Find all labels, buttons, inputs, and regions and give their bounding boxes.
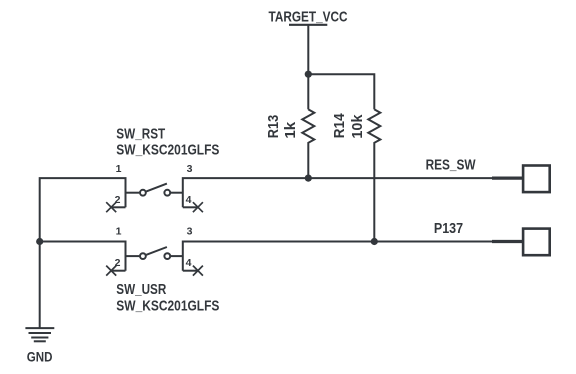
svg-text:SW_KSC201GLFS: SW_KSC201GLFS — [116, 143, 219, 159]
svg-text:2: 2 — [115, 257, 121, 269]
svg-text:2: 2 — [115, 194, 121, 206]
svg-text:GND: GND — [27, 349, 53, 364]
svg-text:SW_KSC201GLFS: SW_KSC201GLFS — [116, 299, 219, 315]
svg-text:R14: R14 — [332, 113, 348, 139]
svg-text:10k: 10k — [350, 114, 366, 139]
svg-text:SW_USR: SW_USR — [116, 282, 166, 298]
svg-text:1: 1 — [116, 163, 122, 175]
svg-text:3: 3 — [187, 163, 193, 175]
svg-text:1k: 1k — [283, 121, 299, 139]
svg-text:3: 3 — [187, 226, 193, 238]
svg-text:4: 4 — [186, 257, 192, 269]
svg-text:SW_RST: SW_RST — [116, 126, 165, 142]
svg-text:R13: R13 — [266, 115, 282, 138]
svg-text:TARGET_VCC: TARGET_VCC — [269, 10, 348, 26]
svg-text:4: 4 — [186, 194, 192, 206]
svg-text:1: 1 — [116, 226, 122, 238]
svg-text:RES_SW: RES_SW — [426, 157, 476, 173]
svg-text:P137: P137 — [434, 221, 463, 237]
